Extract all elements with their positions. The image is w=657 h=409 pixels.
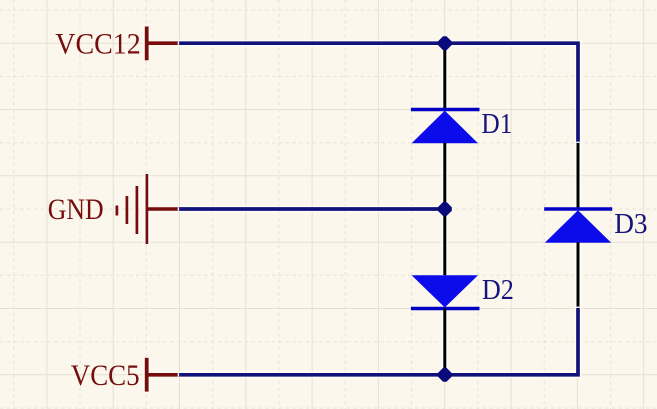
svg-text:D3: D3 [614, 209, 647, 240]
svg-text:GND: GND [48, 194, 104, 226]
diode D3 (anode up) [544, 209, 612, 243]
wire/pin between D1 and D2 (black) [443, 143, 446, 276]
tiny light gaps where stubs/pins meet wires (resize artifact) [178, 42, 580, 377]
svg-text:D1: D1 [481, 109, 512, 140]
diode D3 pin (top, black) [577, 143, 580, 209]
svg-text:VCC5: VCC5 [71, 360, 140, 392]
wire GND net: middle horizontal [178, 207, 445, 211]
diode D1 pin (top, black) [443, 43, 446, 109]
junction at GND/D1/D2 node [438, 202, 452, 216]
svg-text:VCC12: VCC12 [55, 29, 141, 61]
light resampling halo under wires [147, 26, 578, 391]
wire VCC12 net: top horizontal + right vertical drop [178, 43, 578, 143]
diode D1 (anode up) [411, 110, 480, 144]
diode D3 pin (bottom, black) [577, 242, 580, 308]
junction at VCC5/D2 node [438, 368, 452, 382]
junction at VCC12/D1 node [438, 36, 452, 50]
power port VCC5 symbol (bar) [147, 358, 179, 392]
power port VCC12 symbol (bar) [147, 27, 179, 61]
wire VCC5 net: bottom horizontal + right vertical rise [178, 309, 578, 375]
svg-text:D2: D2 [482, 275, 514, 306]
diode D2 pin (bottom, black) [443, 309, 446, 375]
power ground GND symbol (earth bars) [117, 174, 179, 244]
diode D2 (cathode down) [411, 275, 480, 308]
